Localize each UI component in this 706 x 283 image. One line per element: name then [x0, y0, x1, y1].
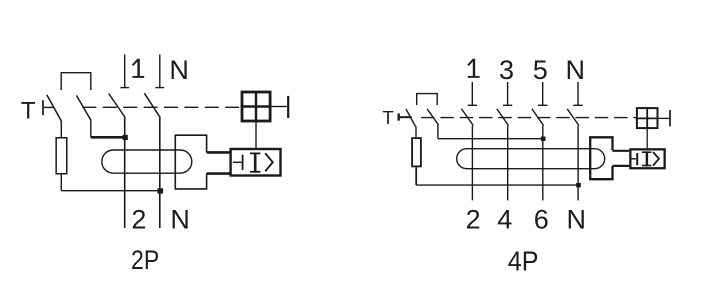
svg-text:N: N: [170, 204, 190, 234]
svg-text:2P: 2P: [131, 245, 159, 275]
svg-text:6: 6: [534, 204, 549, 234]
svg-text:2: 2: [466, 204, 481, 234]
svg-text:4P: 4P: [508, 245, 539, 276]
svg-text:N: N: [567, 204, 587, 234]
svg-text:2: 2: [131, 204, 146, 234]
svg-text:4: 4: [497, 204, 512, 234]
svg-text:3: 3: [499, 55, 514, 85]
svg-text:N: N: [169, 55, 189, 85]
svg-text:5: 5: [533, 55, 548, 85]
svg-text:T: T: [21, 98, 36, 125]
svg-text:N: N: [566, 55, 586, 85]
svg-text:T: T: [382, 107, 393, 128]
